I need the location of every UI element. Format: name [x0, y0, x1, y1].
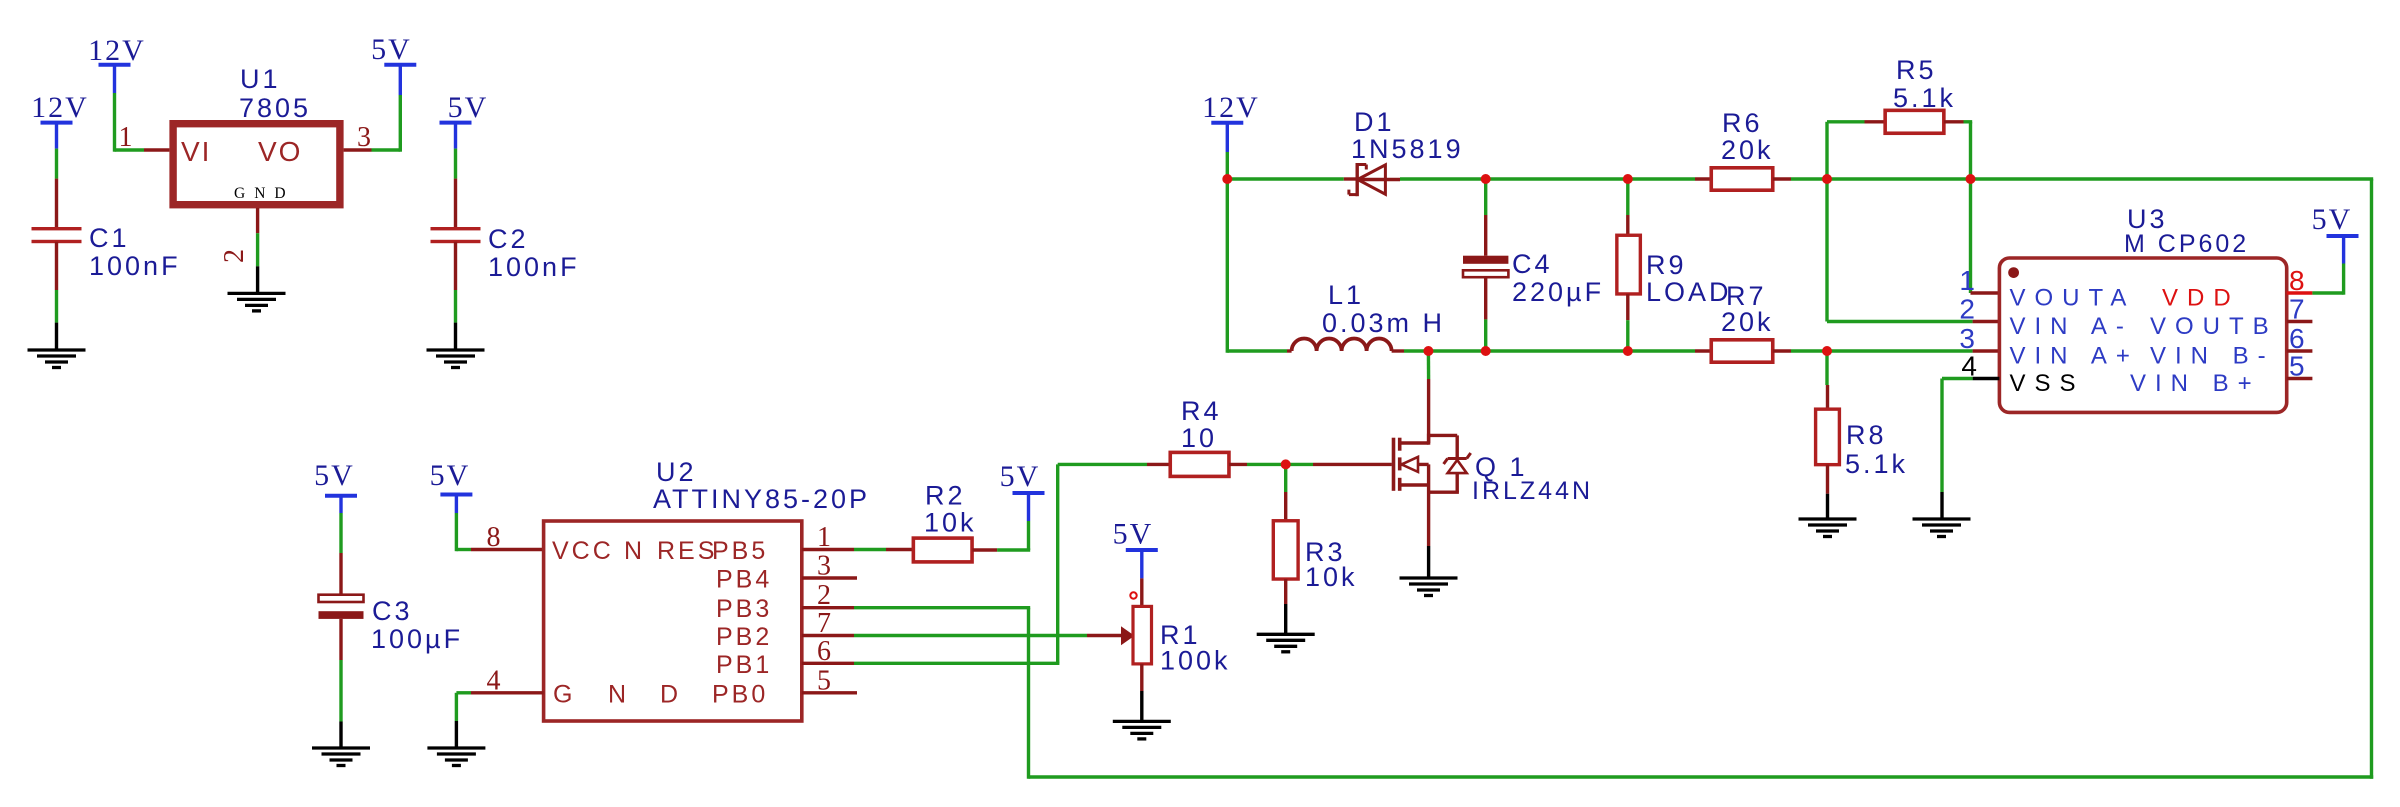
resistor R8 — [1816, 409, 1840, 465]
U2 pin label PB0 — [712, 680, 768, 708]
wire R8 bottom to ground — [1826, 465, 1829, 519]
svg-text:7805: 7805 — [239, 93, 311, 123]
ground under U3 VSS — [1913, 519, 1971, 537]
power symbol 5V (U3 VDD) — [2312, 203, 2359, 236]
svg-text:VCC: VCC — [552, 537, 614, 565]
wire R6 to R5 node — [1773, 177, 1827, 180]
pin number 8 (U3) — [2289, 265, 2305, 296]
wire U2 pin7 (PB2) to R1 wiper — [854, 634, 1121, 637]
pin number 1 (U1 VI) — [119, 122, 133, 153]
label R1 — [1160, 620, 1231, 676]
label L1 — [1322, 280, 1445, 338]
wire 12V rail down-left to L1 — [1227, 179, 1291, 353]
junction gate node — [1281, 459, 1291, 469]
label R4 — [1181, 396, 1222, 453]
wire C3 bottom to ground — [339, 619, 342, 748]
pin number 2 (U3) — [1959, 294, 1975, 325]
label C2 value — [488, 224, 580, 282]
ground under R1 — [1113, 721, 1171, 739]
junction 12V / top rail — [1222, 174, 1232, 184]
wire U2 pin2 (PB3) feedback net — [854, 179, 2373, 779]
U1 pin label VI — [181, 136, 211, 167]
power symbol 5V (above C3) — [314, 459, 357, 496]
wire R2 to 5V — [972, 493, 1030, 550]
resistor R4 — [1170, 452, 1229, 476]
inductor L1 — [1292, 339, 1392, 352]
svg-text:PB3: PB3 — [716, 595, 772, 623]
label U2 name — [653, 457, 870, 514]
wire U3 pin2 net — [1827, 179, 1999, 322]
junction R9 top — [1623, 174, 1633, 184]
power symbol 12V (net 12V, above C1) — [31, 91, 89, 124]
U3 pin label VSS — [2010, 370, 2085, 397]
junction R7/R8 — [1822, 346, 1832, 356]
svg-text:L1: L1 — [1328, 280, 1364, 310]
U3 pin7 stub — [2287, 320, 2313, 323]
svg-text:10k: 10k — [924, 507, 977, 537]
U1 pin label GND — [234, 185, 290, 202]
label R6 — [1721, 108, 1774, 165]
svg-text:ATTINY85-20P: ATTINY85-20P — [653, 484, 870, 514]
wire R9 bottom to R7 — [1628, 349, 1712, 352]
power symbol 5V (U1 output) — [371, 33, 416, 66]
U3 pin1 marker dot — [2008, 267, 2019, 278]
ground under Q1 — [1400, 578, 1458, 596]
pin number 3 (U3) — [1959, 323, 1975, 354]
svg-text:2: 2 — [219, 249, 250, 263]
power symbol 12V (U1 input) — [88, 34, 146, 67]
wire 12V to C1 top — [55, 123, 58, 229]
U3 pin label VINB+ — [2130, 370, 2261, 397]
junction C4 top — [1481, 174, 1491, 184]
svg-text:D1: D1 — [1354, 107, 1395, 137]
resistor R9 (load) — [1617, 235, 1641, 294]
label C4 — [1512, 249, 1604, 307]
label R9 LOAD — [1646, 250, 1732, 307]
junction R6/R5 — [1822, 174, 1832, 184]
svg-text:1: 1 — [119, 122, 133, 153]
label D1 — [1351, 107, 1464, 164]
wire R1 bottom to ground — [1140, 664, 1143, 722]
pin number 2 (U2) — [817, 580, 831, 611]
wire R9 top lead — [1626, 179, 1629, 235]
wire top rail to D1 — [1227, 177, 1357, 180]
label R5 — [1893, 55, 1956, 113]
ground under R8 — [1799, 519, 1857, 537]
capacitor C4 (polarized) — [1463, 256, 1508, 277]
U3 pin6 stub — [2287, 349, 2313, 352]
pin number 3 (U2) — [817, 551, 831, 582]
R1 top terminal circle — [1130, 592, 1136, 598]
wire U1 pin 3 to 5V — [344, 65, 401, 152]
svg-text:3: 3 — [1959, 323, 1975, 354]
svg-text:VIN B+: VIN B+ — [2130, 370, 2261, 397]
label Q1 — [1472, 452, 1593, 505]
pin number 7 (U3) — [2289, 294, 2305, 325]
potentiometer R1 body — [1133, 606, 1152, 664]
resistor R7 — [1711, 340, 1773, 362]
resistor R2 — [913, 538, 972, 562]
transistor Q1 gate bar — [1392, 438, 1396, 491]
U2 pin label N RES — [624, 537, 717, 565]
svg-text:VIN A+: VIN A+ — [2010, 343, 2139, 370]
svg-text:5.1k: 5.1k — [1893, 83, 1956, 113]
pin number 8 (U2 VCC) — [487, 522, 501, 553]
svg-text:1N5819: 1N5819 — [1351, 134, 1464, 164]
label C1 value — [89, 223, 181, 281]
svg-text:100k: 100k — [1160, 646, 1231, 676]
svg-text:7: 7 — [2289, 294, 2305, 325]
U2 pin label VCC — [552, 537, 614, 565]
svg-text:R8: R8 — [1846, 420, 1887, 450]
svg-text:VO: VO — [258, 136, 302, 167]
wire C4 bottom lead — [1484, 277, 1487, 351]
U3 pin label VOUTB — [2150, 313, 2278, 340]
svg-text:LOAD: LOAD — [1646, 277, 1732, 307]
svg-text:GND: GND — [234, 185, 290, 202]
svg-text:PB0: PB0 — [712, 680, 768, 708]
R1 wiper arrow — [1121, 626, 1135, 645]
svg-text:D: D — [660, 680, 681, 708]
svg-text:VIN A-: VIN A- — [2010, 313, 2133, 340]
svg-text:0.03m H: 0.03m H — [1322, 308, 1445, 338]
svg-text:VI: VI — [181, 136, 211, 167]
svg-text:5.1k: 5.1k — [1845, 449, 1908, 479]
svg-text:5: 5 — [2289, 351, 2305, 382]
U1 pin label VO — [258, 136, 302, 167]
wire C4 bottom to R9 bottom — [1486, 349, 1628, 352]
ground under C2 — [427, 350, 485, 368]
svg-text:R4: R4 — [1181, 396, 1222, 426]
ground under C1 — [28, 350, 86, 368]
wire R9 node to R6 — [1628, 177, 1712, 180]
svg-text:1: 1 — [817, 522, 831, 553]
wire D1 to C4 node — [1400, 177, 1486, 180]
svg-text:R5: R5 — [1896, 55, 1937, 85]
pin number 6 (U2) — [817, 636, 831, 667]
svg-text:R2: R2 — [925, 481, 966, 511]
U2 pin label PB5 — [712, 537, 768, 565]
svg-text:M CP602: M CP602 — [2124, 230, 2249, 258]
svg-text:12V: 12V — [88, 34, 146, 67]
capacitor C3 (polarized) — [319, 595, 364, 619]
svg-text:R6: R6 — [1722, 108, 1763, 138]
svg-text:5V: 5V — [430, 459, 471, 492]
svg-text:220µF: 220µF — [1512, 277, 1604, 307]
svg-text:8: 8 — [487, 522, 501, 553]
pin number 4 (U2 GND) — [487, 666, 501, 697]
svg-text:RES: RES — [657, 537, 717, 565]
U3 pin label VOUTA — [2010, 285, 2136, 312]
pin number 1 (U3) — [1959, 265, 1975, 296]
wire switch node to C4 bottom — [1428, 349, 1485, 352]
wire R3 bottom to ground — [1284, 579, 1287, 634]
svg-text:8: 8 — [2289, 265, 2305, 296]
wire gate node to Q1 gate — [1286, 463, 1392, 466]
label R2 — [924, 481, 977, 538]
svg-text:1: 1 — [1959, 265, 1975, 296]
wire C2 bottom to ground — [454, 242, 457, 350]
wire U2 GND pin to ground — [456, 693, 543, 748]
svg-text:PB2: PB2 — [716, 623, 772, 651]
wire U3 pin1 net — [1971, 179, 2000, 293]
svg-text:IRLZ44N: IRLZ44N — [1472, 477, 1593, 505]
svg-text:12V: 12V — [1202, 91, 1260, 124]
svg-text:VOUTA: VOUTA — [2010, 285, 2136, 312]
label U1 name — [239, 64, 311, 123]
transistor Q1 drain stub — [1400, 434, 1429, 445]
ground under C3 — [312, 748, 370, 766]
svg-text:VOUTB: VOUTB — [2150, 313, 2278, 340]
wire gate node to R3 — [1284, 464, 1287, 520]
label C3 value — [371, 596, 463, 654]
transistor Q1 source arrow — [1400, 457, 1429, 472]
wire L1 node to Q1 drain — [1427, 351, 1431, 443]
svg-text:10: 10 — [1181, 423, 1217, 453]
wire R4 to gate node — [1229, 463, 1286, 466]
wire C1 bottom to ground — [55, 242, 58, 350]
junction C4 bottom — [1481, 346, 1491, 356]
U2 pin stub 2 — [802, 606, 854, 609]
wire 12V to U1 pin 1 — [115, 65, 170, 152]
svg-text:R9: R9 — [1646, 250, 1687, 280]
wire R9 bottom lead — [1626, 294, 1629, 351]
U3 pin label VINA+ — [2010, 343, 2139, 370]
label R3 — [1305, 537, 1358, 592]
U3 pin label VINA- — [2010, 313, 2133, 340]
wire 5V to R1 top — [1140, 550, 1143, 606]
pin number 5 (U2) — [817, 665, 831, 696]
svg-text:10k: 10k — [1305, 562, 1358, 592]
wire U2 pin1 to R2 — [854, 548, 913, 551]
svg-text:5V: 5V — [1113, 518, 1154, 551]
ground under U2 GND — [427, 748, 485, 766]
resistor R6 — [1711, 168, 1773, 190]
svg-text:5V: 5V — [1000, 460, 1041, 493]
svg-text:C4: C4 — [1512, 249, 1553, 279]
power symbol 5V (above C2) — [440, 91, 489, 124]
junction R5 right / top rail — [1966, 174, 1976, 184]
junction R9 bottom — [1623, 346, 1633, 356]
wire 5V to C3 top — [339, 496, 342, 595]
svg-text:100nF: 100nF — [488, 252, 580, 282]
pin number 5 (U3) — [2289, 351, 2305, 382]
svg-text:G: G — [553, 680, 575, 708]
label U3 name — [2124, 204, 2249, 258]
transistor Q1 bottom stub — [1400, 483, 1429, 486]
U2 pin stub 7 — [802, 634, 854, 637]
power symbol 5V (above R1) — [1113, 518, 1158, 551]
resistor R5 — [1885, 110, 1944, 133]
mcu U2 box — [544, 521, 802, 721]
op-amp U3 box — [1999, 258, 2286, 412]
svg-text:5V: 5V — [371, 33, 412, 66]
wire C4 top lead — [1484, 179, 1487, 256]
ground under R3 — [1257, 634, 1315, 652]
pin number 1 (U2) — [817, 522, 831, 553]
svg-text:2: 2 — [817, 580, 831, 611]
wire U2 pin6 (PB1) to R4 — [854, 464, 1170, 663]
svg-text:C3: C3 — [372, 596, 413, 626]
svg-text:7: 7 — [817, 608, 831, 639]
Q1 body diode — [1429, 435, 1471, 492]
wire R5 right lead — [1944, 122, 1972, 179]
U2 pin label PB3 — [716, 595, 772, 623]
wire 5V to C2 top — [454, 123, 457, 229]
svg-text:N: N — [608, 680, 629, 708]
wire U3 pin4 to ground — [1942, 379, 1999, 520]
pin number 6 (U3) — [2289, 323, 2305, 354]
svg-text:3: 3 — [817, 551, 831, 582]
ground under U1 — [228, 293, 286, 311]
regulator U1 box — [173, 124, 340, 205]
wire R5 left lead — [1827, 122, 1885, 179]
U3 pin8 stub — [2287, 291, 2313, 294]
svg-text:PB4: PB4 — [716, 566, 772, 594]
svg-text:6: 6 — [817, 636, 831, 667]
power symbol 5V (U2 VCC) — [430, 459, 473, 495]
pin number 3 (U1 VO) — [357, 122, 371, 153]
svg-text:U2: U2 — [656, 457, 697, 487]
svg-text:2: 2 — [1959, 294, 1975, 325]
wire R8 node to U3 pin3 — [1827, 349, 1999, 352]
diode D1 (Schottky) — [1349, 163, 1400, 196]
wire R7 to R8 node — [1773, 349, 1827, 352]
svg-text:VIN B-: VIN B- — [2150, 343, 2275, 370]
resistor R3 — [1273, 521, 1298, 579]
wire U3 pin8 to 5V — [2312, 236, 2343, 295]
pin number 2 (U1 GND, rotated) — [219, 249, 250, 263]
svg-text:6: 6 — [2289, 323, 2305, 354]
svg-text:5V: 5V — [314, 459, 355, 492]
wire R8 top lead — [1825, 351, 1829, 409]
svg-text:5: 5 — [817, 665, 831, 696]
svg-text:C2: C2 — [488, 224, 529, 254]
pin number 7 (U2) — [817, 608, 831, 639]
label R8 — [1845, 420, 1908, 479]
svg-text:VSS: VSS — [2010, 370, 2085, 397]
svg-text:20k: 20k — [1721, 135, 1774, 165]
U3 pin label VDD — [2162, 285, 2240, 312]
svg-text:VDD: VDD — [2162, 285, 2240, 312]
wire C4 node to R9 node — [1486, 177, 1628, 180]
wire R5 node to pin1 node — [1827, 177, 1971, 180]
wire 12V down to top rail — [1226, 123, 1229, 179]
transistor Q1 channel segments — [1398, 438, 1402, 491]
wire 5V to U2 VCC pin 8 — [456, 495, 543, 552]
svg-text:5V: 5V — [448, 91, 489, 124]
svg-text:C1: C1 — [89, 223, 130, 253]
U2 pin stub 5 — [802, 691, 857, 694]
capacitor C1 — [32, 227, 82, 243]
svg-text:5V: 5V — [2312, 203, 2353, 236]
U2 pin label PB2 — [716, 623, 772, 651]
transistor Q1 source lead — [1427, 464, 1430, 578]
svg-text:12V: 12V — [31, 91, 89, 124]
U2 pin stub 3 — [802, 576, 857, 579]
svg-text:100µF: 100µF — [371, 624, 463, 654]
junction switch node — [1423, 346, 1433, 356]
svg-text:N: N — [624, 537, 645, 565]
U3 pin5 stub — [2287, 377, 2313, 380]
power symbol 12V (buck input) — [1202, 91, 1260, 124]
U2 pin stub 1 — [802, 548, 854, 551]
svg-text:PB1: PB1 — [716, 651, 772, 679]
svg-text:U1: U1 — [240, 64, 281, 94]
wire U1 GND pin to ground — [256, 208, 259, 293]
label R7 — [1721, 281, 1774, 337]
power symbol 5V (R2 pull-up) — [1000, 460, 1045, 493]
U2 pin label GND — [553, 680, 681, 708]
U2 pin stub 6 — [802, 662, 854, 665]
U2 pin label PB1 — [716, 651, 772, 679]
U2 pin label PB4 — [716, 566, 772, 594]
svg-text:20k: 20k — [1721, 307, 1774, 337]
svg-text:PB5: PB5 — [712, 537, 768, 565]
svg-text:100nF: 100nF — [89, 251, 181, 281]
capacitor C2 — [431, 227, 481, 243]
U3 pin label VINB- — [2150, 343, 2275, 370]
pin number 4 (U3) — [1961, 351, 1977, 382]
wire L1 to switch node — [1392, 349, 1429, 352]
wire top rail to right edge — [1971, 177, 2374, 180]
